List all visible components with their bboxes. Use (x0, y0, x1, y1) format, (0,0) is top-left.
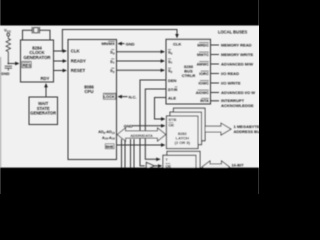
svg-text:LOCK: LOCK (103, 94, 114, 99)
svg-text:MRDC: MRDC (197, 43, 209, 47)
svg-text:RDY: RDY (41, 76, 50, 81)
svg-text:S0: S0 (110, 50, 115, 56)
svg-text:AMWC: AMWC (197, 62, 209, 66)
svg-text:DT/R: DT/R (168, 87, 177, 92)
svg-text:GND: GND (1, 72, 10, 76)
svg-text:BHE: BHE (106, 145, 114, 149)
svg-text:(2 OR 3): (2 OR 3) (175, 140, 191, 145)
svg-text:DEN: DEN (168, 78, 177, 83)
svg-text:IORC: IORC (199, 72, 209, 76)
svg-text:INTA: INTA (200, 99, 209, 103)
svg-text:GND: GND (126, 41, 135, 46)
svg-text:16-BIT: 16-BIT (232, 162, 245, 167)
svg-text:ADVANCED I/O W: ADVANCED I/O W (221, 90, 255, 95)
svg-text:CTRLR: CTRLR (182, 73, 196, 78)
svg-text:I/O WRITE: I/O WRITE (221, 80, 241, 85)
svg-text:VCC: VCC (4, 28, 12, 34)
svg-text:LOCAL BUSES: LOCAL BUSES (218, 30, 248, 35)
svg-text:AIOWC: AIOWC (196, 91, 209, 95)
svg-text:ACKNOWLEDGE: ACKNOWLEDGE (221, 103, 254, 108)
svg-text:CLK: CLK (173, 41, 181, 46)
svg-text:N.C.: N.C. (129, 94, 137, 99)
svg-text:GND: GND (124, 123, 133, 128)
svg-text:GENERATOR: GENERATOR (30, 111, 56, 116)
svg-text:ADDR/DATA: ADDR/DATA (130, 133, 153, 138)
svg-text:READY: READY (71, 59, 86, 64)
svg-text:ALE: ALE (168, 95, 176, 100)
svg-text:MEMORY WRITE: MEMORY WRITE (221, 52, 253, 57)
svg-text:STB: STB (168, 117, 176, 122)
svg-text:I/O READ: I/O READ (221, 71, 239, 76)
svg-text:IOWC: IOWC (198, 81, 209, 85)
svg-text:ADVANCED M/W: ADVANCED M/W (221, 61, 253, 66)
svg-text:S1: S1 (110, 59, 115, 65)
svg-text:AD0-AD15: AD0-AD15 (98, 130, 115, 135)
svg-text:MWTC: MWTC (197, 53, 209, 57)
svg-text:CPU: CPU (84, 89, 93, 94)
svg-text:RESET: RESET (71, 68, 86, 73)
svg-text:GENERATOR: GENERATOR (23, 55, 51, 60)
svg-text:RES: RES (23, 63, 32, 68)
svg-text:A16-A19: A16-A19 (102, 136, 115, 141)
svg-text:ADDRESS BU: ADDRESS BU (234, 129, 260, 134)
svg-text:S1: S1 (168, 59, 173, 65)
svg-text:MEMORY READ: MEMORY READ (221, 42, 252, 47)
svg-text:OE: OE (168, 123, 174, 128)
svg-text:CLK: CLK (71, 49, 81, 54)
svg-text:S2: S2 (110, 68, 115, 74)
svg-text:S2: S2 (168, 68, 173, 74)
svg-text:S0: S0 (168, 50, 173, 56)
svg-text:MN/MX: MN/MX (101, 41, 115, 46)
